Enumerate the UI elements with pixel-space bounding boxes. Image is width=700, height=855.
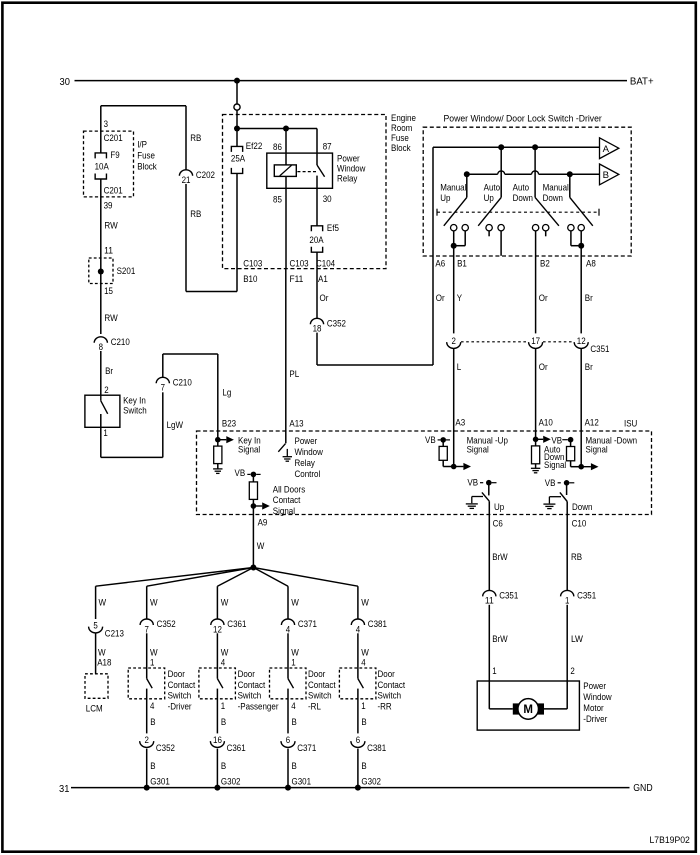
connector C381 pin 6 [351,735,386,753]
wire C352-2 to ground bus [146,749,148,788]
wire A9 down [252,506,254,568]
wire label RB [190,133,201,143]
wire Br (pin12 to A12) [580,349,582,467]
connector C201 upper label [104,133,123,143]
wire label RW lower [104,313,117,323]
resistor auto-down pulldown [532,439,540,464]
svg-text:1: 1 [291,657,295,667]
svg-text:Door: Door [168,669,185,679]
svg-text:Manual: Manual [440,183,466,193]
junction node fuse block feed [234,126,240,132]
Key In Switch box [85,395,120,427]
fuse Ef22 feed wire [236,129,238,147]
svg-text:6: 6 [286,735,290,745]
wire key-in pin1 down [100,414,102,457]
svg-text:12: 12 [213,624,222,634]
wire label Br [105,366,113,376]
connector C361 pin 12 [211,619,247,634]
svg-text:-RR: -RR [378,702,392,712]
wire label W (-RL) [291,597,299,607]
svg-text:Contact: Contact [168,680,196,690]
Door Contact Switch -Driver label [168,669,196,712]
wire label W (-RR) [361,597,369,607]
wire C381-6 to ground bus [357,749,359,788]
svg-text:1: 1 [150,657,154,667]
connector C210 pin 7 [156,377,192,392]
ground up switch [466,504,478,509]
svg-text:7: 7 [161,383,165,393]
svg-text:11: 11 [104,245,113,255]
Door Contact Switch -Driver box [128,668,165,699]
connector C103 pin B10 labels [243,258,262,284]
wire label LgW [167,420,184,430]
svg-text:B: B [221,717,226,727]
svg-text:Door: Door [238,669,255,679]
junction A9 fan node [250,565,256,571]
Power Window Relay label [337,153,366,183]
svg-text:Contact: Contact [238,680,266,690]
wire RB top horizontal [101,105,186,107]
svg-text:B: B [150,717,155,727]
svg-text:5: 5 [93,620,97,630]
wire label PL [289,369,299,379]
contact manual-down right [578,225,584,231]
wire B10-RB join [186,291,237,293]
wire label Or (A1) [320,293,329,303]
wire label B lower (-RL) [292,761,297,771]
svg-text:VB: VB [545,478,556,488]
wire label B lower (-Passenger) [221,761,226,771]
wire C210-8 to key in switch [100,351,102,395]
svg-text:GND: GND [633,783,652,794]
svg-text:Contact: Contact [273,495,301,505]
svg-text:2: 2 [452,336,456,346]
wire C381-4 to door switch [357,633,359,678]
wire label W lower (-Passenger) [221,648,229,658]
connector C351 dashed row [461,341,573,343]
svg-text:ISU: ISU [624,418,637,428]
pin 11 label [104,245,113,255]
svg-text:Relay: Relay [295,458,316,468]
svg-text:C103: C103 [290,258,309,268]
Door Contact Switch -RR label [378,669,406,712]
svg-text:A13: A13 [289,418,303,428]
svg-text:Contact: Contact [378,680,406,690]
wire switch to C361-16 [216,689,218,734]
wire RB vertical upper [185,106,187,170]
svg-text:RW: RW [104,313,117,323]
connector C104 pin A1 labels [316,258,335,284]
svg-text:All Doors: All Doors [273,484,306,494]
svg-text:C213: C213 [105,629,124,639]
fuse F9 10A [95,150,120,179]
Engine Room Fuse Block box [223,115,387,269]
svg-text:L7B19P02: L7B19P02 [650,835,690,845]
svg-text:B: B [150,761,155,771]
svg-text:Power: Power [583,681,606,691]
resistor manual-down pullup [567,440,575,461]
wire C213 to LCM [95,633,97,674]
contact auto-down left [532,225,538,231]
junction node relay coil feed [283,126,289,132]
wire resistor to A9 node [252,499,254,506]
junction VB up switch [486,480,497,486]
svg-text:VB: VB [235,468,246,478]
pin 4 label (-Passenger) [221,657,225,667]
svg-text:2: 2 [145,735,149,745]
connector C210 pin 8 [94,337,130,352]
relay U1 Power Window Relay box [267,153,333,188]
svg-text:C10: C10 [572,518,587,528]
connector C352 pin 2 [140,735,175,753]
contact auto-down right [543,225,549,231]
svg-text:F11: F11 [290,274,304,284]
svg-text:A10: A10 [539,417,553,427]
pin 4 label (-Driver) [150,701,154,711]
contact manual-down left [568,225,574,231]
junction VB manual-down [568,437,574,443]
svg-text:30: 30 [323,194,332,204]
wire fan to C213 branch [96,568,254,587]
svg-text:Ef5: Ef5 [327,223,339,233]
Door Contact Switch -RL label [308,669,336,712]
svg-text:39: 39 [104,200,113,210]
svg-text:W: W [150,597,158,607]
svg-text:Relay: Relay [337,173,358,183]
wire auto-up right to box edge [500,231,502,256]
wire label Or (A10) [539,362,548,372]
wire into F9 [100,106,102,153]
svg-text:4: 4 [286,624,290,634]
svg-text:30: 30 [60,77,71,88]
wire A8 Br [580,246,582,334]
svg-text:Power: Power [295,436,318,446]
junction on bus 30 [234,78,240,84]
svg-text:BrW: BrW [492,552,508,562]
pin 30 label [323,194,332,204]
svg-text:Switch: Switch [308,691,332,701]
wire fan to driver-door branch [147,568,254,587]
Manual Down label [543,183,569,204]
svg-text:Switch: Switch [238,691,262,701]
wire label RB (C10) [571,552,582,562]
junction B23 input node [215,437,221,443]
wire label L [457,362,461,372]
svg-text:B: B [221,761,226,771]
svg-text:S201: S201 [117,266,136,276]
wire C371-4 to door switch [287,633,289,678]
Down label [572,502,592,512]
junction A12 node [578,464,584,470]
wire W branch (-RL) [287,586,289,619]
svg-text:C351: C351 [577,591,596,601]
Key In Switch label [123,395,147,415]
wire feed to relay pins [237,128,317,130]
key in switch contact [101,395,108,414]
wire label W lower (-Driver) [150,648,158,658]
wire A6 Or [432,147,434,365]
wire B2 Or [535,231,537,334]
pin 85 label [273,194,282,204]
svg-text:Signal: Signal [544,460,566,470]
svg-text:M: M [523,704,533,716]
wire label BrW lower [492,634,508,644]
pin 1 label (-RR) [361,701,365,711]
connector C351 pin 12 [574,336,609,354]
wire C352-7 to door switch [146,633,148,678]
contact auto-up right [498,225,504,231]
svg-text:RB: RB [571,552,582,562]
svg-text:C6: C6 [493,519,503,529]
svg-text:8: 8 [99,342,103,352]
svg-text:Key In: Key In [123,395,146,405]
svg-text:B2: B2 [540,258,550,268]
switch Manual Down blade [570,174,593,226]
svg-text:Or: Or [539,362,548,372]
svg-text:4: 4 [361,657,365,667]
svg-text:4: 4 [356,624,360,634]
svg-text:VB: VB [467,477,478,487]
wire Or (pin17 to A10) [535,349,537,440]
junction A10 input node [533,437,539,443]
ground key-in resistor [213,464,222,474]
pin B23 label [222,418,236,428]
svg-text:Manual: Manual [543,183,569,193]
wire label RB lower [190,209,201,219]
All Doors Contact Signal label [273,484,306,516]
svg-text:B: B [361,761,366,771]
contact manual-up left [451,225,457,231]
connector C352 pin 18 [310,318,346,333]
splice S201 junction [98,269,104,275]
pin C6 label [493,519,503,529]
wire fan to RR-door branch [253,568,358,587]
Auto Down label [513,183,533,204]
svg-text:C210: C210 [111,337,130,347]
pin B1 label [457,258,467,268]
svg-text:7: 7 [145,624,149,634]
wire label B lower (-Driver) [150,761,155,771]
wire L (pin2 to A3) [453,349,455,467]
wire label Y [457,293,462,303]
pin 15 label [104,286,113,296]
Door Contact Switch -RL box [270,668,307,699]
svg-text:Auto: Auto [513,183,530,193]
contact manual-up right [462,225,468,231]
A13 driver switch blade [278,444,285,452]
svg-text:Switch: Switch [168,691,192,701]
svg-text:Up: Up [494,502,504,512]
svg-text:W: W [221,648,229,658]
motor M1 wires [489,708,567,710]
svg-text:C352: C352 [157,619,176,629]
VB label (all doors) [235,468,251,478]
svg-text:RB: RB [190,209,201,219]
wire W to C213 [95,586,97,619]
relay switch feed wire pin 87 [316,129,318,166]
svg-text:LgW: LgW [167,420,184,430]
connector C103 pin F11 labels [290,258,309,284]
svg-text:RW: RW [104,220,117,230]
pin A6 label [435,258,445,268]
svg-text:1: 1 [361,701,365,711]
wire label W (A18) [98,648,106,658]
LCM box [85,674,108,699]
VB label (manual up) [425,435,440,445]
wire bus B (to triangle B) [467,171,600,174]
svg-text:B23: B23 [222,418,236,428]
svg-text:RB: RB [190,133,201,143]
svg-text:B: B [361,717,366,727]
Manual -Down Signal label [586,435,638,454]
pin A18 label [97,657,111,667]
svg-text:2: 2 [570,666,574,676]
svg-text:C371: C371 [298,619,317,629]
svg-text:16: 16 [213,735,222,745]
switch Auto Down blade [535,147,559,226]
svg-text:W: W [98,648,106,658]
ISU box [197,431,652,515]
wire label LW [571,634,583,644]
wire label Or (A6) [436,293,445,303]
svg-text:11: 11 [485,596,494,606]
wire VB to manual-down pullup [562,439,568,441]
svg-text:Br: Br [105,366,113,376]
svg-text:G301: G301 [150,776,170,786]
wire C351-11 to motor [488,605,490,709]
wire C371-6 to ground bus [287,749,289,788]
Power Window/ Door Lock Switch -Driver title [444,113,603,124]
svg-text:A1: A1 [318,274,328,284]
resistor key-in pulldown [214,440,222,464]
svg-text:BrW: BrW [492,634,508,644]
svg-text:BAT+: BAT+ [630,77,654,88]
wire switch to C371-6 [287,689,289,734]
svg-text:C104: C104 [316,258,335,268]
svg-text:Or: Or [320,293,329,303]
Door Contact Switch -Passenger label [238,669,279,712]
output triangle B [600,164,619,185]
wire LgW up to C210-7 [162,392,164,457]
wire resistor to A12 node [571,461,582,467]
wire Lg top corner [163,353,218,355]
svg-text:Up: Up [484,193,494,203]
connector C352 pin 7 [140,619,176,634]
svg-text:C351: C351 [590,344,609,354]
wire label B (-Driver) [150,717,155,727]
Door Contact Switch -Passenger box [199,668,236,699]
svg-text:15: 15 [104,286,113,296]
VB label (down switch) [545,478,561,488]
pin 1 label (-RL) [291,657,295,667]
svg-text:A6: A6 [435,258,445,268]
wire bus 31 GND [71,787,630,789]
svg-text:C371: C371 [297,743,316,753]
wire C10 down [566,502,568,591]
svg-text:A12: A12 [585,417,599,427]
svg-text:6: 6 [356,735,360,745]
wire resistor to A3 node [443,460,454,466]
resistor all doors [249,474,257,499]
junction ground G302 [355,785,361,791]
svg-text:Signal: Signal [273,506,295,516]
wire switch to C352-2 [146,689,148,734]
I/P Fuse Block box [84,131,134,197]
svg-text:-Driver: -Driver [168,702,192,712]
wire relay 85 to C103-F11 (PL) [285,176,287,268]
LCM label [86,704,103,714]
svg-text:1: 1 [565,596,569,606]
svg-text:Block: Block [391,143,411,153]
svg-text:W: W [99,597,107,607]
svg-text:Down: Down [513,193,533,203]
svg-text:Switch: Switch [378,691,402,701]
pin 39 label [104,200,113,210]
door contact switch blade (-Passenger) [217,679,223,689]
connector C202 pin 21 [179,170,215,185]
relay coil feed wire pin 86 [285,129,287,165]
S201 label [117,266,136,276]
Key In Signal label [238,435,261,454]
connector C381 pin 4 [351,619,387,634]
Manual Up label [440,183,466,204]
door contact switch blade (-Driver) [147,679,153,689]
junction manual-up pivot [464,171,470,177]
ISU label [624,418,637,428]
wire label W (-Passenger) [221,597,229,607]
relay switch blade [317,165,325,177]
connector C351 pin 1 [561,590,597,605]
up switch blade [482,492,489,501]
wire into fuse block [236,110,238,128]
relay link dashed [297,171,317,173]
svg-text:W: W [361,648,369,658]
wire fan to RL-door branch [253,568,288,587]
svg-text:31: 31 [59,784,70,795]
svg-text:4: 4 [291,701,295,711]
wire A13 into ISU [285,431,287,443]
pin 86 label [273,142,282,152]
down switch ground bracket [549,497,561,504]
svg-text:W: W [257,541,265,551]
I/P Fuse Block label [137,140,157,172]
svg-text:25A: 25A [231,153,246,163]
ground A13 driver [283,449,292,461]
ground node G301 label [150,776,170,786]
svg-text:Or: Or [436,293,445,303]
wire label W lower (-RL) [291,648,299,658]
wire label B (-Passenger) [221,717,226,727]
VB label (auto down) [551,435,562,445]
wire manual-down contacts join [571,231,581,246]
svg-text:Control: Control [295,469,321,479]
svg-text:Signal: Signal [238,444,260,454]
svg-text:Contact: Contact [308,680,336,690]
svg-text:VB: VB [425,435,436,445]
svg-text:Down: Down [543,193,563,203]
terminal circle at fuse block entry [234,104,240,110]
svg-text:C351: C351 [499,591,518,601]
svg-text:Signal: Signal [467,444,489,454]
junction ground G301 [144,785,150,791]
wire C361-12 to door switch [216,633,218,678]
contact auto-up left [486,225,492,231]
svg-text:A18: A18 [97,657,111,667]
svg-text:C210: C210 [173,377,192,387]
svg-text:A: A [603,144,610,155]
arrow Manual Down Signal [581,463,598,470]
pin 4 label (-RR) [361,657,365,667]
